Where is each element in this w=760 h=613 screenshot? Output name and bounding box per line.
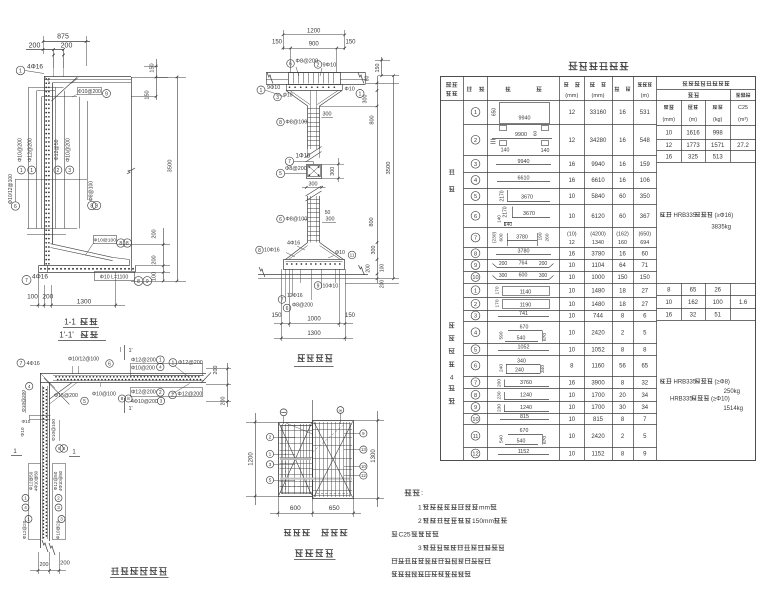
svg-text:9: 9: [474, 263, 477, 269]
svg-text:Φ10/12@100: Φ10/12@100: [68, 357, 99, 363]
svg-text:800: 800: [370, 115, 376, 124]
svg-text:30: 30: [619, 405, 626, 411]
svg-text:300: 300: [309, 181, 318, 187]
svg-text:1: 1: [269, 452, 272, 458]
svg-text:(≥Φ10): (≥Φ10): [711, 397, 730, 403]
svg-text:100: 100: [152, 272, 158, 281]
svg-text:3: 3: [269, 462, 272, 468]
svg-text:10: 10: [568, 434, 575, 440]
svg-text:Φ12@200: Φ12@200: [28, 138, 34, 162]
svg-text:200: 200: [539, 261, 548, 267]
svg-text:Φ8@200: Φ8@200: [292, 303, 313, 309]
svg-text:150: 150: [271, 313, 282, 319]
svg-text:10: 10: [568, 330, 575, 336]
svg-text:200: 200: [496, 379, 502, 387]
svg-text:2: 2: [57, 496, 60, 501]
svg-text:HRB335: HRB335: [674, 380, 697, 386]
svg-text:3: 3: [68, 168, 71, 174]
svg-text:815: 815: [593, 417, 604, 423]
svg-text:(kg): (kg): [713, 117, 722, 123]
svg-text:64: 64: [619, 263, 626, 269]
svg-text:20: 20: [619, 393, 626, 399]
svg-text:190: 190: [538, 232, 544, 240]
svg-text:150: 150: [145, 90, 151, 99]
svg-text:240: 240: [499, 364, 505, 372]
svg-text:16: 16: [568, 178, 575, 184]
svg-text:2: 2: [474, 302, 477, 308]
svg-text:1: 1: [20, 168, 23, 174]
svg-text:150: 150: [617, 275, 628, 281]
svg-text:Φ12@200: Φ12@200: [131, 358, 156, 364]
svg-text:140: 140: [504, 222, 513, 228]
svg-text:27: 27: [641, 302, 648, 308]
svg-text:1514kg: 1514kg: [723, 406, 743, 412]
svg-text:1: 1: [474, 110, 477, 116]
svg-text:650: 650: [491, 108, 497, 117]
svg-text:3500: 3500: [386, 162, 392, 175]
svg-text:250kg: 250kg: [724, 389, 740, 395]
svg-text:8: 8: [258, 248, 261, 254]
svg-text:6: 6: [279, 217, 282, 223]
svg-text:Φ10: Φ10: [345, 87, 355, 93]
svg-text:mm: mm: [479, 505, 490, 512]
svg-text:3760: 3760: [520, 380, 532, 386]
svg-text:900: 900: [309, 42, 320, 48]
svg-text:200: 200: [380, 280, 386, 289]
svg-text:8: 8: [137, 279, 140, 285]
svg-text:875: 875: [57, 34, 69, 41]
svg-text:1300: 1300: [307, 331, 321, 337]
svg-text:1000: 1000: [591, 275, 605, 281]
svg-text:7: 7: [20, 361, 23, 367]
svg-text:5: 5: [474, 347, 477, 353]
svg-text:18: 18: [619, 302, 626, 308]
svg-text:300: 300: [371, 246, 377, 255]
svg-text:1104: 1104: [592, 263, 606, 269]
svg-text:8: 8: [119, 241, 122, 247]
svg-text:60: 60: [641, 251, 648, 257]
svg-text:9Φ10: 9Φ10: [267, 85, 280, 91]
svg-text:200: 200: [213, 366, 219, 375]
svg-text:300: 300: [539, 273, 548, 279]
svg-text:1480: 1480: [591, 288, 605, 294]
svg-text:3500: 3500: [168, 160, 174, 173]
svg-text:1300: 1300: [371, 449, 377, 463]
svg-text:540: 540: [517, 336, 526, 342]
svg-text:1240: 1240: [520, 405, 532, 411]
svg-text:6: 6: [108, 361, 111, 367]
svg-text:10: 10: [568, 452, 575, 458]
svg-text:Φ10@200: Φ10@200: [21, 390, 27, 412]
svg-text:34: 34: [641, 405, 648, 411]
svg-text:∞: ∞: [339, 408, 343, 414]
svg-text:10: 10: [472, 275, 478, 281]
svg-text:13: 13: [361, 447, 366, 452]
svg-text:10: 10: [568, 393, 575, 399]
svg-text:5: 5: [279, 171, 282, 177]
svg-text:159: 159: [640, 162, 651, 168]
svg-text:998: 998: [713, 131, 724, 137]
svg-text:9: 9: [474, 405, 477, 411]
svg-text:Φ12@200: Φ12@200: [178, 360, 203, 366]
svg-text:65: 65: [690, 288, 697, 294]
svg-text:230: 230: [496, 391, 502, 399]
svg-text:230: 230: [496, 404, 502, 412]
svg-text:200: 200: [40, 562, 49, 568]
svg-text:10: 10: [568, 405, 575, 411]
svg-text:800: 800: [369, 217, 375, 226]
svg-text:16: 16: [568, 162, 575, 168]
svg-text:HRB335: HRB335: [674, 213, 697, 219]
svg-text:815: 815: [520, 414, 529, 420]
svg-text:8: 8: [90, 203, 93, 209]
svg-text:1200: 1200: [248, 452, 254, 466]
svg-text:27.2: 27.2: [737, 143, 749, 149]
svg-text:3780: 3780: [516, 234, 528, 240]
svg-text:11: 11: [350, 253, 355, 258]
svg-text:16: 16: [568, 251, 575, 257]
svg-text:162: 162: [688, 300, 699, 306]
svg-text:1152: 1152: [518, 449, 530, 455]
svg-text:3: 3: [474, 162, 477, 168]
svg-text:4Φ16: 4Φ16: [27, 64, 43, 71]
svg-text:Φ12@200: Φ12@200: [178, 392, 203, 398]
svg-text::: :: [421, 488, 423, 497]
svg-text:Φ10@200: Φ10@200: [131, 366, 155, 372]
svg-text:6610: 6610: [518, 175, 530, 181]
svg-text:5: 5: [83, 399, 86, 405]
svg-text:9940: 9940: [591, 162, 605, 168]
svg-text:4Φ10@50: 4Φ10@50: [58, 470, 63, 491]
svg-text:1: 1: [260, 88, 263, 94]
svg-text:10: 10: [472, 417, 478, 423]
svg-text:(mm): (mm): [663, 117, 676, 123]
svg-text:10Φ16: 10Φ16: [264, 248, 280, 254]
svg-text:100: 100: [380, 264, 386, 273]
svg-text:140: 140: [501, 148, 510, 154]
svg-text:1190: 1190: [520, 302, 532, 308]
svg-text:764: 764: [519, 261, 528, 267]
svg-text:Φ8@200: Φ8@200: [296, 59, 319, 65]
svg-text:32: 32: [641, 380, 648, 386]
svg-text:32: 32: [690, 313, 697, 319]
svg-text:4: 4: [474, 330, 477, 336]
svg-text:(mm): (mm): [591, 93, 604, 99]
svg-text:10: 10: [665, 300, 672, 306]
svg-text:Φ8@100: Φ8@100: [286, 120, 308, 126]
svg-text:1571: 1571: [711, 143, 725, 149]
svg-text:8: 8: [95, 203, 98, 209]
svg-text:150mm: 150mm: [472, 518, 494, 525]
svg-text:Φ10@100: Φ10@100: [92, 392, 116, 398]
svg-text:60: 60: [532, 131, 538, 137]
svg-text:10: 10: [665, 131, 672, 137]
svg-text:12: 12: [361, 473, 366, 478]
svg-text:8: 8: [62, 446, 65, 452]
svg-text:(mm): (mm): [565, 93, 578, 99]
svg-text:8: 8: [127, 396, 130, 402]
svg-text:(10): (10): [567, 231, 577, 237]
svg-text:3: 3: [474, 314, 477, 320]
svg-text:260: 260: [545, 233, 551, 241]
svg-text:2170: 2170: [500, 190, 506, 201]
svg-text:200: 200: [499, 261, 508, 267]
svg-text:3670: 3670: [523, 211, 535, 217]
svg-text:12: 12: [569, 240, 575, 246]
svg-text:10: 10: [568, 275, 575, 281]
svg-text:1: 1: [159, 358, 162, 364]
svg-text:3: 3: [276, 95, 279, 101]
svg-text:Φ12@50: Φ12@50: [54, 139, 60, 160]
svg-text:5: 5: [474, 194, 477, 200]
svg-text:16: 16: [619, 138, 626, 144]
svg-text:1': 1': [129, 406, 133, 412]
svg-text:3: 3: [57, 505, 60, 510]
svg-text:4Φ16: 4Φ16: [287, 241, 300, 247]
svg-text:Φ10@20: Φ10@20: [56, 520, 61, 539]
svg-text:1773: 1773: [686, 143, 700, 149]
svg-text:100: 100: [713, 300, 724, 306]
svg-text:10: 10: [568, 263, 575, 269]
svg-text:741: 741: [519, 311, 528, 317]
svg-text:4Φ16: 4Φ16: [32, 274, 48, 281]
svg-text:200: 200: [366, 264, 372, 273]
svg-text:Φ10@100: Φ10@100: [93, 237, 116, 243]
svg-text:150: 150: [345, 40, 356, 46]
svg-text:16: 16: [619, 251, 626, 257]
svg-text:HRB335: HRB335: [670, 397, 693, 403]
svg-text:4: 4: [159, 365, 162, 371]
svg-text:12: 12: [568, 110, 575, 116]
svg-text:140: 140: [497, 215, 502, 223]
svg-text:16: 16: [619, 162, 626, 168]
svg-text:1700: 1700: [591, 393, 605, 399]
svg-text:(m): (m): [689, 117, 697, 123]
svg-text:3670: 3670: [521, 195, 533, 201]
svg-text:1300: 1300: [77, 299, 92, 306]
svg-text:7: 7: [25, 278, 28, 284]
svg-text:1000: 1000: [307, 317, 321, 323]
svg-text:10: 10: [568, 302, 575, 308]
svg-text:540: 540: [517, 439, 526, 445]
svg-text:531: 531: [640, 110, 651, 116]
svg-text:10: 10: [361, 464, 366, 469]
svg-text:300: 300: [323, 112, 332, 118]
svg-text:1: 1: [24, 496, 27, 501]
svg-text:150: 150: [272, 40, 283, 46]
svg-text:650: 650: [329, 505, 340, 512]
svg-text:4: 4: [24, 505, 27, 510]
svg-text:670: 670: [542, 436, 548, 444]
svg-text:2: 2: [57, 168, 60, 174]
svg-text:150: 150: [640, 275, 651, 281]
svg-text:4Φ10@50: 4Φ10@50: [34, 470, 39, 491]
svg-text:1152: 1152: [592, 452, 606, 458]
svg-text:670: 670: [542, 333, 548, 341]
svg-text:(230): (230): [492, 232, 498, 244]
svg-text:6610: 6610: [591, 178, 605, 184]
svg-text:65: 65: [641, 364, 648, 370]
svg-text:10Φ10: 10Φ10: [323, 284, 339, 290]
svg-text:16: 16: [568, 380, 575, 386]
svg-text:5: 5: [269, 478, 272, 484]
svg-text:600: 600: [519, 273, 528, 279]
svg-text:600: 600: [499, 233, 505, 241]
svg-text:80: 80: [365, 76, 371, 82]
svg-text:4: 4: [28, 384, 31, 390]
svg-text:200: 200: [61, 43, 73, 50]
svg-text:1': 1': [129, 348, 133, 354]
svg-text:1052: 1052: [591, 347, 605, 353]
svg-text:60: 60: [619, 194, 626, 200]
svg-text:9: 9: [317, 283, 320, 289]
svg-text:6120: 6120: [591, 214, 605, 220]
svg-text:3: 3: [418, 545, 422, 552]
svg-text:300: 300: [326, 217, 335, 223]
svg-text:27: 27: [641, 288, 648, 294]
svg-text:(m³): (m³): [738, 117, 748, 123]
svg-text:600: 600: [290, 505, 301, 512]
svg-text:7: 7: [474, 236, 477, 242]
svg-text:60: 60: [619, 214, 626, 220]
svg-text:34280: 34280: [590, 138, 607, 144]
svg-text:1: 1: [418, 505, 422, 512]
svg-text:2: 2: [269, 435, 272, 441]
svg-text:(650): (650): [639, 231, 652, 237]
svg-text:50: 50: [325, 210, 331, 216]
svg-text:Φ10@200: Φ10@200: [78, 89, 101, 95]
svg-text:513: 513: [713, 155, 724, 161]
svg-text:160: 160: [618, 240, 627, 246]
svg-text:11: 11: [473, 434, 479, 440]
svg-text:Φ8@100: Φ8@100: [88, 181, 94, 201]
svg-text:4: 4: [474, 178, 477, 184]
svg-text:1160: 1160: [592, 364, 606, 370]
svg-text:744: 744: [593, 314, 604, 320]
svg-text:71: 71: [641, 263, 648, 269]
svg-text:12: 12: [665, 143, 672, 149]
svg-text:8: 8: [474, 393, 477, 399]
svg-text:16: 16: [619, 110, 626, 116]
svg-text:16: 16: [665, 155, 672, 161]
svg-text:1.6: 1.6: [739, 300, 748, 306]
svg-text:7: 7: [281, 297, 284, 303]
svg-text:16: 16: [619, 178, 626, 184]
svg-text:150: 150: [150, 63, 156, 72]
svg-text:56: 56: [619, 364, 626, 370]
svg-text:548: 548: [640, 138, 651, 144]
svg-text:325: 325: [688, 155, 699, 161]
svg-text:200: 200: [152, 255, 158, 264]
svg-text:100: 100: [27, 294, 38, 301]
svg-text:1340: 1340: [592, 240, 604, 246]
svg-text:6: 6: [286, 306, 289, 312]
svg-text:4Φ16: 4Φ16: [27, 361, 40, 367]
svg-text:300: 300: [330, 167, 336, 176]
svg-text:9940: 9940: [519, 116, 531, 122]
svg-text:4Φ10@200: 4Φ10@200: [131, 399, 158, 405]
svg-text:1240: 1240: [520, 393, 532, 399]
svg-text:300: 300: [363, 95, 369, 104]
svg-text:1: 1: [359, 91, 362, 97]
svg-text:(m): (m): [641, 93, 650, 99]
svg-text:(≥Φ16): (≥Φ16): [715, 213, 734, 219]
svg-text:9: 9: [146, 279, 149, 285]
svg-text:694: 694: [640, 240, 649, 246]
svg-text:540: 540: [499, 435, 505, 443]
svg-text:51: 51: [714, 313, 721, 319]
svg-text:Φ10@200: Φ10@200: [17, 138, 23, 162]
svg-text:350: 350: [640, 194, 651, 200]
svg-text:18: 18: [619, 288, 626, 294]
svg-text:6: 6: [289, 61, 292, 67]
svg-text:8: 8: [58, 446, 61, 452]
svg-text:(162): (162): [616, 231, 629, 237]
svg-text:Φ10/12@100: Φ10/12@100: [8, 174, 14, 204]
svg-text:1616: 1616: [686, 131, 700, 137]
svg-text:200: 200: [29, 43, 41, 50]
svg-text:9Φ10: 9Φ10: [323, 63, 337, 69]
svg-text:8: 8: [126, 241, 129, 247]
svg-text:10: 10: [568, 347, 575, 353]
svg-text:367: 367: [640, 214, 651, 220]
svg-text:170: 170: [494, 286, 500, 294]
svg-text:1-1: 1-1: [64, 318, 76, 327]
svg-text:1700: 1700: [591, 405, 605, 411]
svg-text:670: 670: [520, 325, 529, 331]
svg-text:106: 106: [640, 178, 651, 184]
svg-text:3: 3: [60, 517, 63, 522]
svg-text:10: 10: [568, 314, 575, 320]
svg-text:590: 590: [499, 331, 505, 339]
svg-text:Φ10@200: Φ10@200: [66, 138, 72, 162]
svg-text:10: 10: [568, 288, 575, 294]
svg-text:2: 2: [474, 138, 477, 144]
svg-text:3900: 3900: [591, 380, 605, 386]
svg-text:7: 7: [474, 380, 477, 386]
svg-text:12: 12: [472, 452, 478, 458]
svg-text:240: 240: [515, 368, 524, 374]
svg-text:170: 170: [494, 299, 500, 307]
svg-text:1: 1: [27, 517, 30, 522]
svg-text:6: 6: [474, 364, 477, 370]
svg-text:1052: 1052: [518, 345, 530, 351]
svg-text:6: 6: [474, 214, 477, 220]
svg-text:1'-1': 1'-1': [59, 331, 74, 340]
svg-text:8: 8: [121, 396, 124, 402]
svg-text:150: 150: [375, 64, 381, 73]
svg-text:2: 2: [317, 62, 320, 68]
svg-text:1480: 1480: [591, 302, 605, 308]
svg-text:6: 6: [14, 204, 17, 210]
svg-text:Φ12@20: Φ12@20: [22, 520, 27, 539]
svg-text:2: 2: [159, 390, 162, 396]
svg-text:(4200): (4200): [590, 231, 606, 237]
svg-text:150: 150: [345, 313, 356, 319]
svg-text:C25: C25: [399, 532, 411, 539]
svg-text:2420: 2420: [591, 330, 605, 336]
svg-text:16: 16: [665, 313, 672, 319]
svg-text:8: 8: [474, 251, 477, 257]
svg-text:1Φ16: 1Φ16: [296, 154, 311, 160]
svg-text:Φ10@100: Φ10@100: [51, 419, 57, 441]
svg-text:340: 340: [517, 359, 526, 365]
svg-text:200: 200: [152, 229, 158, 238]
svg-text:12: 12: [568, 138, 575, 144]
svg-text:5840: 5840: [591, 194, 605, 200]
svg-text:9900: 9900: [515, 132, 527, 138]
svg-text:C25: C25: [738, 105, 748, 111]
